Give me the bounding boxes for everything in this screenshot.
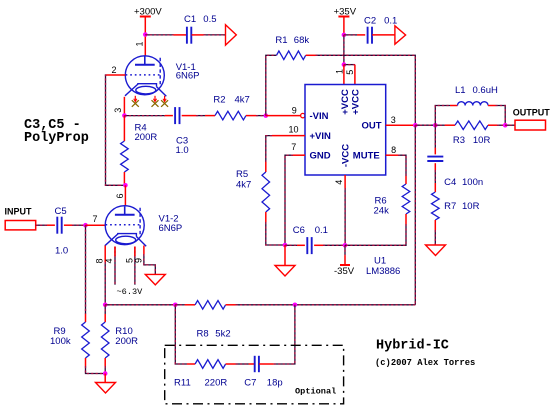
op-amp U1 LM3886 body: [305, 85, 386, 176]
wire cathode node to R8: [105, 304, 175, 306]
wire R1 left lead: [266, 55, 277, 115]
svg-text:+VCC: +VCC: [350, 89, 361, 115]
wire C3 to R2: [182, 115, 205, 117]
pin 9 wire to ground: [144, 246, 155, 275]
wire gnd node to C6: [285, 244, 305, 246]
resistor R6: [374, 176, 410, 224]
connector arrow after C2: [395, 26, 406, 44]
node L1/R3/output junction: [503, 123, 508, 128]
svg-text:4: 4: [334, 180, 344, 185]
pin 5 label IC: [345, 70, 355, 75]
wire OUT to L network: [415, 124, 435, 126]
capacitor C7: [244, 356, 282, 389]
svg-text:PolyProp: PolyProp: [24, 131, 89, 146]
inductor L1: [455, 85, 498, 106]
svg-text:R3: R3: [453, 135, 465, 146]
node -35V junction: [343, 243, 348, 248]
pin 1 label IC: [334, 69, 344, 74]
svg-text:L1: L1: [455, 85, 466, 96]
wire C2 to arrow: [372, 34, 395, 36]
power -35V rail: [334, 245, 355, 277]
label +VIN: [310, 131, 332, 142]
svg-text:0.1: 0.1: [384, 16, 397, 27]
pin 6 label V1-2: [115, 193, 125, 198]
node +35V/C2 junction: [342, 33, 347, 38]
svg-text:R5: R5: [236, 169, 248, 180]
svg-text:R1: R1: [275, 35, 287, 46]
power +300V rail: [134, 7, 162, 35]
wire C2 tap: [344, 34, 365, 36]
label OUT: [362, 121, 382, 132]
wire -VIN node to pin 9 bubble: [266, 115, 301, 117]
resistor R4: [121, 116, 158, 186]
svg-text:6N6P: 6N6P: [159, 223, 183, 234]
svg-text:~6.3V: ~6.3V: [117, 287, 144, 297]
node OUT/L1 junction: [433, 123, 438, 128]
svg-text:C5: C5: [55, 206, 67, 217]
ground below R7: [426, 245, 446, 256]
pin 10 label: [288, 125, 298, 135]
resistor R8: [175, 301, 295, 340]
wire feedback bottom: [295, 304, 415, 306]
svg-text:18p: 18p: [267, 378, 283, 389]
wire junction to V1-2 plate pin 6: [124, 185, 126, 205]
svg-text:MUTE: MUTE: [353, 151, 380, 162]
pin 7 label IC: [291, 142, 296, 152]
wire R6 to -35V node: [345, 224, 406, 245]
optional dash-dot box: [165, 345, 344, 404]
svg-text:1.0: 1.0: [176, 145, 189, 156]
svg-text:R11: R11: [174, 378, 191, 389]
node +300V/C1 junction: [143, 32, 148, 37]
wire node to ground: [284, 245, 286, 266]
wire R10 top: [104, 305, 106, 322]
label INPUT: [5, 206, 33, 216]
wire C1 to output arrow: [192, 34, 226, 36]
svg-text:+VIN: +VIN: [310, 131, 332, 142]
svg-text:3: 3: [391, 115, 396, 125]
wire C4 to R7: [434, 163, 436, 183]
pin 4 label V1-2: [104, 258, 114, 263]
pin 9 bubble: [301, 113, 305, 117]
wire to OUTPUT connector: [505, 124, 515, 126]
pin 8 label IC: [391, 145, 396, 155]
wire cathode to C3: [124, 115, 172, 117]
svg-text:+VCC: +VCC: [340, 89, 351, 115]
svg-text:1: 1: [135, 41, 145, 46]
svg-text:9: 9: [292, 106, 297, 116]
copyright: [375, 358, 475, 368]
svg-text:OUTPUT: OUTPUT: [513, 108, 551, 118]
svg-text:LM3886: LM3886: [366, 266, 400, 277]
wire grid pin 2 of V1-1: [106, 75, 126, 185]
svg-text:+35V: +35V: [334, 7, 357, 18]
label V1-2: [159, 214, 183, 235]
node -VIN junction: [264, 113, 269, 118]
pin 8 wire V1-2 cathode: [104, 246, 106, 305]
svg-text:4k7: 4k7: [235, 95, 250, 106]
node V1-1 cathode junction: [122, 113, 127, 118]
pin 1 label V1-1: [135, 41, 145, 46]
ground bottom: [96, 383, 116, 394]
svg-text:0.5: 0.5: [203, 14, 216, 25]
pin 8 label V1-2: [95, 258, 105, 263]
wire R11 to C7: [236, 363, 255, 365]
wire feedback vertical: [414, 125, 416, 305]
title Hybrid-IC: [376, 338, 449, 353]
node V1-2 cathode bottom junction: [103, 303, 108, 308]
svg-text:100k: 100k: [50, 336, 71, 347]
resistor R11: [174, 360, 236, 389]
svg-text:8: 8: [391, 145, 396, 155]
wire pin 4 -VCC: [344, 175, 346, 245]
svg-text:1.0: 1.0: [55, 246, 68, 257]
svg-text:-35V: -35V: [334, 266, 355, 277]
svg-text:10R: 10R: [462, 201, 480, 212]
resistor R3: [435, 121, 505, 146]
capacitor C5: [55, 206, 69, 257]
svg-text:C1: C1: [184, 14, 196, 25]
wire to bottom ground: [104, 374, 106, 383]
resistor R1: [275, 35, 309, 60]
node OUT/feedback junction: [413, 123, 418, 128]
svg-text:R2: R2: [213, 95, 225, 106]
svg-text:6: 6: [115, 193, 125, 198]
svg-text:6N6P: 6N6P: [176, 70, 200, 81]
svg-text:100n: 100n: [462, 177, 483, 188]
svg-text:C4: C4: [444, 177, 456, 188]
svg-text:5k2: 5k2: [215, 328, 230, 339]
svg-text:8: 8: [95, 258, 105, 263]
wire R1 to feedback vertical: [306, 55, 416, 123]
svg-text:INPUT: INPUT: [5, 206, 33, 216]
wire junction to C1: [145, 34, 186, 36]
label GND: [310, 151, 331, 162]
node R4/V1-2 plate junction: [123, 183, 128, 188]
svg-text:200R: 200R: [135, 132, 158, 143]
pin 7 label V1-2: [92, 214, 97, 224]
wire L1 to right corner: [488, 106, 505, 126]
capacitor C1: [184, 14, 217, 44]
wire C6 to -35V node: [314, 244, 345, 246]
svg-text:0.6uH: 0.6uH: [473, 85, 498, 96]
ground below C6 node: [275, 266, 295, 277]
capacitor C3: [175, 107, 189, 156]
resistor R5: [236, 162, 270, 222]
triode V1-1: [125, 56, 166, 97]
svg-text:R8: R8: [197, 328, 209, 339]
wire input node to grid pin 7: [86, 224, 106, 226]
connector arrow after C1: [226, 25, 237, 45]
triode V1-2: [105, 206, 146, 247]
svg-text:68k: 68k: [294, 35, 310, 46]
svg-text:10: 10: [288, 125, 298, 135]
svg-text:C6: C6: [293, 225, 305, 236]
wire L1 branch up: [435, 106, 457, 126]
svg-text:OUT: OUT: [362, 121, 382, 132]
svg-text:4k7: 4k7: [236, 180, 251, 191]
node input junction: [83, 223, 88, 228]
wire INPUT to C5: [36, 224, 55, 226]
label V1-1: [176, 62, 200, 81]
wire R10 bottom: [104, 358, 106, 374]
svg-text:-VIN: -VIN: [310, 111, 329, 122]
label MUTE: [353, 151, 380, 162]
node GND junction: [283, 243, 288, 248]
wire R7 to ground: [434, 230, 436, 245]
label ~6.3V: [117, 287, 144, 297]
svg-text:9: 9: [134, 258, 144, 263]
label -VIN: [310, 111, 329, 122]
svg-text:+300V: +300V: [134, 7, 162, 18]
pin 5 label V1-2: [124, 258, 134, 263]
note C3 C5 PolyProp: [24, 118, 89, 146]
svg-text:C7: C7: [244, 378, 256, 389]
power +35V rail: [334, 7, 357, 35]
wire +35V down to VCC pins: [343, 35, 345, 65]
pin 5 heater stub: [134, 247, 136, 285]
wire OUT node down to C4: [434, 125, 436, 154]
label +VCC pair: [340, 89, 362, 115]
wire MUTE pin 8: [386, 155, 406, 176]
no-connect pins V1-1: [132, 96, 168, 107]
svg-text:7: 7: [92, 214, 97, 224]
svg-text:10R: 10R: [473, 135, 491, 146]
wire V1-1 cathode pin 3: [123, 97, 125, 116]
svg-text:200R: 200R: [115, 336, 138, 347]
wire R2 to -VIN node: [256, 115, 266, 117]
svg-text:Hybrid-IC: Hybrid-IC: [376, 338, 449, 353]
node ground bottom junction: [103, 371, 108, 376]
resistor R10: [101, 322, 138, 358]
capacitor C2: [364, 16, 397, 44]
wire R11 branch down: [175, 305, 187, 364]
label -VCC: [341, 144, 352, 167]
svg-text:4: 4: [104, 258, 114, 263]
svg-text:24k: 24k: [374, 205, 390, 216]
capacitor C6: [293, 225, 328, 254]
svg-text:3: 3: [113, 108, 123, 113]
connector OUTPUT: [513, 108, 551, 131]
pin 9 label: [292, 106, 297, 116]
node R8/C7 right junction: [293, 303, 298, 308]
pin 9 label V1-2: [134, 258, 144, 263]
connector INPUT: [5, 221, 36, 230]
svg-text:1: 1: [334, 69, 344, 74]
svg-text:2: 2: [111, 65, 116, 75]
svg-text:R7: R7: [444, 201, 456, 212]
svg-text:(c)2007 Alex Torres: (c)2007 Alex Torres: [375, 358, 475, 368]
wire pin 1 +VCC: [343, 65, 345, 85]
svg-text:0.1: 0.1: [315, 225, 328, 236]
pin 3 label V1-1: [113, 108, 123, 113]
resistor R7: [432, 183, 480, 230]
svg-text:C2: C2: [364, 16, 376, 27]
wire +300V to V1-1 plate pin 1: [144, 35, 146, 57]
wire pin 10: [266, 136, 305, 162]
svg-text:7: 7: [291, 142, 296, 152]
ground at V1-2 pin 9: [145, 274, 165, 285]
svg-text:Optional: Optional: [295, 387, 336, 397]
resistor R2: [205, 95, 256, 120]
wire pin 7 GND: [285, 155, 305, 245]
pin 4 heater stub: [114, 247, 116, 285]
pin 2 label V1-1: [111, 65, 116, 75]
wire OUT pin 3: [386, 124, 416, 126]
node VCC branch junction: [342, 62, 347, 67]
pin 3 label IC: [391, 115, 396, 125]
wire R5 to ground node: [266, 222, 285, 245]
wire pin 5 +VCC: [344, 65, 355, 85]
svg-text:5: 5: [345, 70, 355, 75]
svg-text:-VCC: -VCC: [341, 144, 352, 167]
wire C7 to right branch: [259, 305, 295, 364]
wire R9 bottom: [86, 358, 106, 374]
svg-text:GND: GND: [310, 151, 331, 162]
label U1: [366, 256, 400, 277]
wire input node down: [85, 225, 87, 322]
svg-text:220R: 220R: [205, 378, 228, 389]
capacitor C4: [427, 157, 483, 188]
resistor R9: [50, 322, 89, 358]
node R8/R11 branch junction: [173, 303, 178, 308]
pin 4 label IC: [334, 180, 344, 185]
wire C5 to input node: [64, 224, 86, 226]
